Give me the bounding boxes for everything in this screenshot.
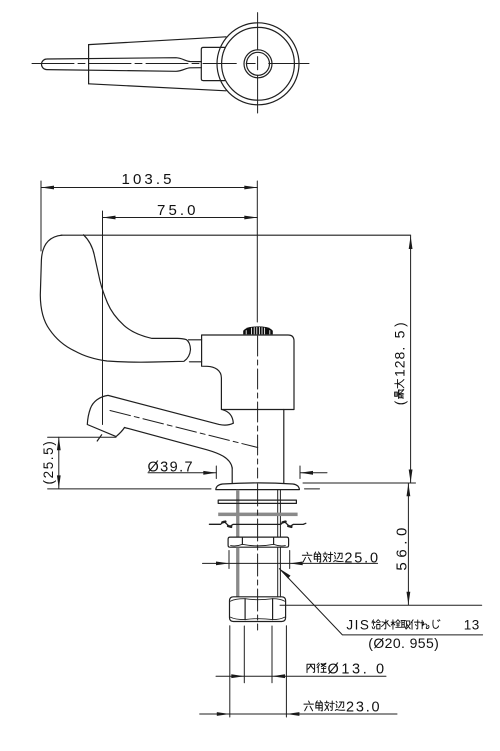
lever joint top line	[189, 339, 202, 341]
hub outer circle	[244, 50, 272, 78]
arrow 128.5 bottom	[409, 470, 413, 483]
svg-text:25.0: 25.0	[344, 551, 379, 567]
svg-text:75.0: 75.0	[157, 202, 199, 219]
handle outer circle (top view)	[217, 23, 299, 105]
washer 2 (dark)	[218, 513, 297, 517]
dim id13 line	[216, 675, 386, 677]
flange	[216, 483, 300, 490]
text JIS thread label	[346, 618, 479, 633]
dim 39.7 line left	[148, 472, 216, 474]
svg-text:5: 5	[392, 330, 408, 338]
arrow id13 left	[231, 674, 244, 678]
text hex across flats 23.0	[304, 700, 381, 716]
dim hex23 line	[200, 713, 397, 715]
cap screw slots	[246, 327, 270, 334]
lever joint block top view	[201, 47, 224, 80]
svg-text:56.0: 56.0	[394, 523, 411, 571]
arrow 25.5 top	[57, 437, 61, 450]
arrows	[41, 186, 413, 716]
counter break line with zigzags	[209, 521, 305, 526]
dim hex25 ext	[229, 551, 290, 569]
arrow hex25 right	[290, 562, 303, 566]
dim 103.5/75 ext right	[256, 181, 258, 322]
upper nut facet lines	[242, 537, 273, 544]
arrow hex23 right	[286, 712, 299, 716]
arrow 103.5 left	[41, 186, 54, 190]
svg-text:13: 13	[464, 618, 480, 633]
svg-text:(: (	[393, 399, 408, 405]
upper nut chamfer arcs	[231, 544, 286, 546]
dim 103.5 ext left	[40, 181, 42, 251]
lever wing bottom edge	[89, 84, 226, 91]
svg-text:): )	[393, 321, 408, 327]
spout tip outlet	[87, 395, 124, 436]
riser left edge lower	[231, 468, 233, 483]
body fillet to riser	[223, 410, 234, 423]
faucet body outline	[202, 335, 294, 410]
horizontal center line top view	[32, 63, 236, 65]
svg-text:Ø39.7: Ø39.7	[148, 460, 195, 476]
lower nut chamfer arcs	[230, 599, 284, 620]
lever wing left edge top view	[88, 45, 90, 84]
spout top edge	[109, 396, 234, 426]
dim 75.0 line	[103, 217, 258, 219]
arrow 56 top	[407, 483, 411, 496]
lever handle side view	[40, 235, 190, 362]
washer 1	[218, 500, 296, 503]
lower nut facet lines	[245, 599, 273, 620]
dim 103.5 line	[41, 187, 257, 189]
body center line	[257, 336, 259, 478]
arrow hex25 left	[216, 562, 229, 566]
dim 25.5 vertical line	[58, 437, 60, 488]
lever wing top edge	[89, 37, 226, 45]
pipe thread lines between nuts	[236, 547, 239, 596]
text (max 128.5) rotated	[392, 321, 408, 405]
dim 128.5 vertical line	[410, 236, 412, 483]
arrow 56 bottom	[407, 592, 411, 605]
lever stem top view	[41, 58, 201, 72]
svg-text:23.0: 23.0	[346, 700, 381, 716]
lever joint bottom line	[190, 361, 202, 363]
dim 25.5 ext bottom / counter line	[48, 488, 320, 490]
upper nut	[228, 537, 289, 547]
svg-text:(Ø20. 955): (Ø20. 955)	[368, 635, 439, 651]
JIS leader	[279, 569, 482, 635]
svg-text:128.: 128.	[392, 346, 408, 377]
svg-text:JIS: JIS	[346, 618, 370, 633]
arrow hex23 left	[217, 712, 230, 716]
svg-text:103.5: 103.5	[122, 171, 175, 188]
pipe thread lines below flange	[236, 490, 239, 537]
arrow id13 right	[272, 674, 285, 678]
spout center line	[110, 411, 258, 448]
dim 128.5 bottom ext	[303, 482, 416, 484]
dim 56.0 bottom ext	[280, 604, 482, 606]
text inner dia 13.0	[307, 662, 387, 678]
dim hex23 ext	[230, 626, 287, 717]
spout outlet inner tick	[97, 435, 102, 441]
lower nut	[230, 597, 286, 622]
dim 56.0 vertical line	[407, 483, 409, 605]
dim 39.7 ext	[216, 466, 300, 479]
svg-text:Ø13. 0: Ø13. 0	[328, 662, 387, 678]
arrow 39.7 right	[300, 471, 313, 475]
dim 25.5 ext top	[48, 436, 116, 438]
hub inner circle	[247, 52, 270, 75]
dim id13 ext	[244, 626, 272, 683]
spout bottom edge	[125, 428, 233, 469]
arrow 39.7 left	[203, 471, 216, 475]
arrow 75 left	[103, 216, 116, 220]
arrow 25.5 bottom	[57, 475, 61, 488]
arrow 103.5 right	[244, 186, 257, 190]
text hex across flats 25.0	[302, 551, 379, 567]
cap screw dome (black)	[243, 326, 273, 334]
dim 39.7 line right	[300, 472, 327, 474]
dim 75.0 ext left	[102, 211, 104, 425]
arrow 128.5 top	[409, 236, 413, 249]
riser right edge	[283, 410, 285, 483]
center line lower stack	[257, 484, 259, 630]
lever top line + 128.5 extension	[61, 234, 411, 236]
svg-text:(25.5): (25.5)	[41, 440, 56, 485]
arrow 75 right	[244, 216, 257, 220]
handle inner circle (top view)	[222, 27, 295, 100]
dim hex25 line	[203, 562, 378, 564]
arrow JIS leader	[279, 569, 290, 579]
vertical center line top view	[257, 13, 259, 113]
